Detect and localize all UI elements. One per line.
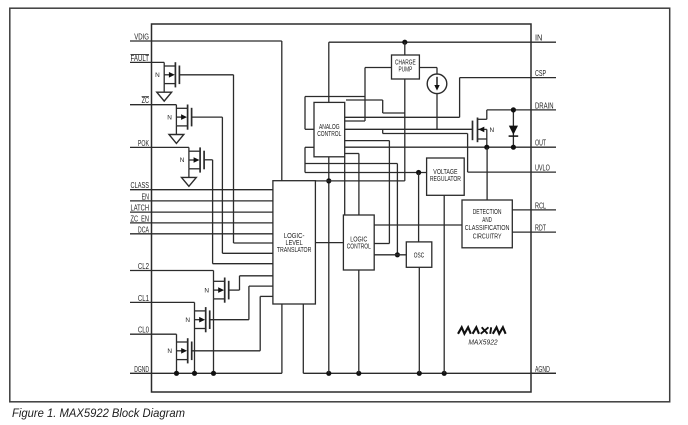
wire charge pump left stub bbox=[365, 67, 392, 69]
text OSC bbox=[414, 250, 425, 259]
svg-text:N: N bbox=[155, 72, 160, 79]
wire ac top-right stub bbox=[346, 99, 383, 101]
wire Q2 gate from translator bbox=[192, 116, 223, 118]
transistor Q6 (CL0) bbox=[167, 334, 191, 363]
wire VDIG vertical to translator bbox=[281, 41, 283, 181]
svg-text:N: N bbox=[180, 157, 185, 164]
svg-text:Figure 1. MAX5922 Block Diagra: Figure 1. MAX5922 Block Diagram bbox=[12, 406, 185, 420]
wire uvlo branch stub bbox=[382, 129, 384, 133]
wire ac-lc top vertical bbox=[358, 154, 360, 216]
wire POK pin bbox=[130, 146, 189, 148]
wire under analog control bbox=[305, 163, 397, 165]
wire LATCH pin bbox=[130, 211, 273, 213]
wire ac left lower vertical bbox=[304, 147, 306, 172]
wire ZC pin bbox=[130, 104, 176, 106]
wire charge pump right stub bbox=[419, 67, 437, 69]
wire charge pump supply bbox=[404, 42, 406, 55]
wire logic control to osc bbox=[374, 254, 406, 256]
wire analog control down bbox=[328, 157, 330, 373]
svg-text:CL0: CL0 bbox=[138, 326, 150, 335]
block U1 logic-level translator bbox=[273, 181, 316, 304]
wire RCL bbox=[512, 209, 531, 211]
wire Q1 gate vertical bbox=[233, 75, 235, 243]
svg-text:IN: IN bbox=[535, 34, 543, 43]
wire IN to analog control bbox=[328, 42, 330, 102]
svg-text:N: N bbox=[185, 317, 190, 324]
block U5 voltage regulator bbox=[427, 158, 465, 195]
svg-text:EN: EN bbox=[142, 192, 150, 201]
wire ac stub to cp net bbox=[383, 112, 405, 114]
svg-text:OSC: OSC bbox=[414, 250, 425, 259]
current source I1 bbox=[427, 74, 447, 94]
text logic-level translator bbox=[277, 231, 312, 254]
block U3 analog control bbox=[314, 102, 345, 156]
transistor Q2 (ZC) ground bbox=[169, 126, 184, 143]
svg-text:ZC_EN: ZC_EN bbox=[131, 214, 150, 223]
wire ac corner down bbox=[344, 157, 346, 215]
svg-text:UVLO: UVLO bbox=[535, 164, 550, 173]
svg-text:LATCH: LATCH bbox=[131, 204, 150, 213]
svg-text:N: N bbox=[167, 114, 172, 121]
svg-text:N: N bbox=[167, 348, 172, 355]
svg-text:TRANSLATOR: TRANSLATOR bbox=[277, 245, 312, 254]
wire ac stub vertical bbox=[382, 100, 384, 113]
wire CSP vertical bbox=[459, 78, 461, 118]
wire CL0 pin bbox=[130, 333, 177, 335]
wire Q4 gate into translator bbox=[240, 275, 273, 277]
wire uvlo vertical bbox=[467, 134, 469, 173]
wire regulator ground bbox=[443, 195, 445, 373]
wire charge pump to translator top bbox=[315, 180, 404, 182]
svg-text:FAULT: FAULT bbox=[131, 54, 150, 63]
svg-text:CSP: CSP bbox=[535, 69, 546, 78]
wire CSP upper horizontal bbox=[460, 77, 531, 79]
wire Q6 gate vertical bbox=[259, 296, 261, 350]
wire ac-lc vertical bbox=[388, 141, 390, 244]
wire uvlo to pin bbox=[468, 171, 531, 173]
transistor Q5 (CL1) bbox=[185, 302, 209, 332]
wire UVLO pin stub bbox=[531, 171, 556, 173]
wire VDIG pin bbox=[130, 40, 282, 42]
wire regulator-osc vertical bbox=[418, 173, 420, 242]
wire Q4 source to DGND bbox=[213, 299, 215, 373]
wire Q5 source to DGND bbox=[194, 329, 196, 374]
junction D1 / OUT bbox=[511, 145, 516, 150]
wire RDT pin stub bbox=[531, 231, 556, 233]
svg-text:POK: POK bbox=[138, 139, 150, 148]
wire Q3 gate into translator bbox=[213, 263, 273, 265]
svg-text:PUMP: PUMP bbox=[399, 65, 413, 74]
transistor Q2 (ZC) bbox=[167, 105, 191, 130]
text voltage regulator bbox=[430, 167, 461, 183]
svg-text:DCA: DCA bbox=[138, 225, 150, 234]
wire RCL pin stub bbox=[531, 209, 556, 211]
wire FAULT pin bbox=[130, 61, 164, 63]
wire CLASS pin bbox=[130, 189, 273, 191]
wire DRAIN line bbox=[487, 109, 531, 111]
wire OUT pin stub bbox=[531, 146, 556, 148]
wire IN line bbox=[329, 41, 531, 43]
wire Q3 gate vertical bbox=[212, 160, 214, 264]
svg-text:AGND: AGND bbox=[535, 365, 550, 374]
transistor Q7 power NMOS bbox=[473, 110, 495, 147]
transistor Q4 (CL2) bbox=[204, 271, 228, 303]
svg-text:RCL: RCL bbox=[535, 201, 546, 210]
wire Q5 gate into translator bbox=[249, 285, 273, 287]
wire IN pin stub bbox=[531, 41, 556, 43]
wire osc feed vertical bbox=[396, 164, 398, 255]
wire translator to AGND bbox=[302, 304, 304, 373]
wire into logic control right bbox=[374, 243, 389, 245]
wire logic control ground bbox=[358, 270, 360, 373]
svg-text:N: N bbox=[204, 287, 209, 294]
svg-text:DRAIN: DRAIN bbox=[535, 101, 554, 110]
wire Q5 gate vertical bbox=[248, 286, 250, 320]
wire ac left lower stub bbox=[305, 146, 314, 148]
junction Q4 source / DGND bbox=[211, 371, 216, 376]
svg-text:VDIG: VDIG bbox=[134, 33, 149, 42]
wire Q1 gate from translator bbox=[179, 74, 233, 76]
text charge pump bbox=[395, 58, 416, 74]
transistor Q1 (FAULT) bbox=[155, 62, 179, 87]
wire ZC_EN pin bbox=[130, 222, 273, 224]
wire to analog control right (cp) bbox=[345, 120, 365, 122]
junction regulator ground / AGND bbox=[442, 371, 447, 376]
junction Q5 source / DGND bbox=[192, 371, 197, 376]
diode D1 bbox=[509, 110, 519, 147]
svg-text:CL1: CL1 bbox=[138, 294, 150, 303]
svg-text:OUT: OUT bbox=[535, 139, 546, 148]
svg-text:CLASS: CLASS bbox=[131, 181, 150, 190]
transistor Q3 (POK) ground bbox=[182, 169, 197, 187]
wire Q4 gate vertical bbox=[239, 276, 241, 290]
wire AGND pin stub bbox=[531, 372, 556, 374]
wire Q1 gate into translator bbox=[234, 242, 273, 244]
wire Q2 gate vertical bbox=[221, 117, 223, 253]
block U7 detection and classification circuitry bbox=[462, 200, 512, 248]
wire CL2 pin bbox=[130, 270, 214, 272]
wire RDT bbox=[512, 231, 531, 233]
label FAULT with overbar bbox=[131, 54, 150, 63]
wire OUT line bbox=[345, 146, 531, 148]
wire DCA pin bbox=[130, 233, 273, 235]
wire ac to logic control top bbox=[345, 153, 359, 155]
junction osc feed bbox=[395, 252, 400, 257]
wire charge pump bottom bbox=[404, 79, 406, 181]
transistor Q3 (POK) bbox=[180, 147, 204, 172]
svg-text:RDT: RDT bbox=[535, 224, 546, 233]
text detection classification bbox=[465, 207, 510, 240]
wire to current source bbox=[436, 68, 438, 75]
wire gate drive line bbox=[345, 128, 473, 130]
label ZC with overbar bbox=[142, 96, 150, 105]
junction D1 / DRAIN bbox=[511, 107, 516, 112]
wire regulator feed bbox=[305, 172, 427, 174]
wire EN pin bbox=[130, 200, 273, 202]
wire Q3 gate from translator bbox=[204, 159, 213, 161]
text logic control bbox=[347, 234, 371, 250]
svg-text:CONTROL: CONTROL bbox=[317, 129, 341, 138]
svg-text:CONTROL: CONTROL bbox=[347, 241, 371, 250]
junction logic-control ground / AGND bbox=[356, 371, 361, 376]
block U6 oscillator bbox=[406, 242, 432, 267]
wire Q2 gate into translator bbox=[222, 252, 273, 254]
wire Q4 gate bbox=[229, 289, 240, 291]
svg-text:REGULATOR: REGULATOR bbox=[430, 174, 461, 183]
wire OUT to detection bbox=[486, 147, 488, 200]
wire CL1 pin bbox=[130, 301, 195, 303]
junction analog control / translator net bbox=[326, 178, 331, 183]
wire AGND rail bbox=[303, 372, 556, 374]
svg-text:CIRCUITRY: CIRCUITRY bbox=[473, 231, 502, 240]
wire translator to DGND bbox=[281, 304, 283, 373]
wire over-the-top horizontal bbox=[305, 96, 365, 98]
wire ac to logic control right bbox=[345, 140, 390, 142]
wire translator to logic control bbox=[315, 242, 343, 244]
wire DRAIN pin stub bbox=[531, 109, 556, 111]
svg-text:DGND: DGND bbox=[134, 365, 149, 374]
text analog control bbox=[317, 122, 341, 138]
wire Q6 gate bbox=[192, 350, 261, 352]
wire over-the-top left vertical bbox=[304, 97, 306, 130]
wire Q6 source to DGND bbox=[176, 360, 178, 374]
wire into analog control left bbox=[305, 128, 314, 130]
wire logic control to detection bbox=[374, 224, 462, 226]
wire current source to gate line bbox=[436, 94, 438, 130]
svg-text:N: N bbox=[490, 127, 495, 134]
wire DGND rail bbox=[130, 372, 282, 374]
junction regulator / oscillator bbox=[416, 170, 421, 175]
wire Q6 gate into translator bbox=[260, 295, 273, 297]
wire CSP inside horizontal bbox=[345, 116, 460, 118]
junction IN / charge pump bbox=[402, 40, 407, 45]
junction oscillator ground / AGND bbox=[417, 371, 422, 376]
junction analog-control ground / AGND bbox=[326, 371, 331, 376]
IC boundary box bbox=[152, 24, 532, 392]
block U4 charge pump bbox=[392, 55, 420, 79]
transistor Q1 (FAULT) ground bbox=[157, 84, 172, 102]
wire uvlo horizontal bbox=[383, 133, 468, 135]
block U2 logic control bbox=[343, 215, 374, 270]
wire Q5 gate bbox=[210, 319, 249, 321]
svg-text:CL2: CL2 bbox=[138, 262, 150, 271]
wire charge pump left vertical bbox=[364, 68, 366, 122]
wire CSP pin stub bbox=[531, 77, 556, 79]
junction Q7 source / OUT bbox=[484, 145, 489, 150]
MAXIM logo bbox=[458, 327, 506, 334]
svg-text:MAX5922: MAX5922 bbox=[468, 337, 497, 346]
junction Q6 source / DGND bbox=[174, 371, 179, 376]
svg-text:ZC: ZC bbox=[142, 96, 150, 105]
wire oscillator ground bbox=[418, 267, 420, 373]
